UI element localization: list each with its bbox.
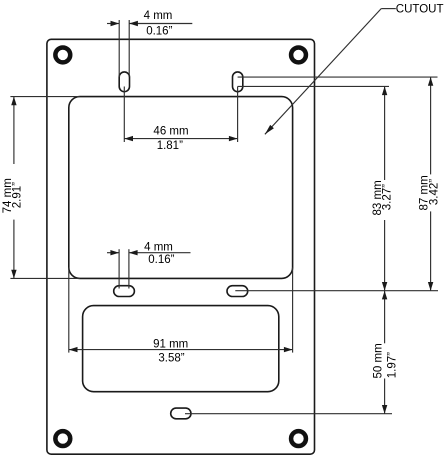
svg-text:91 mm: 91 mm — [153, 339, 188, 351]
svg-text:1.81”: 1.81” — [157, 140, 183, 152]
mounting hole top-left — [55, 47, 70, 62]
slot top-left (vertical) — [119, 72, 129, 92]
bottom slot reference line (to 50mm dimension) — [185, 413, 392, 415]
dimension 83mm: value label — [372, 180, 394, 215]
slot reference line upper (to 87mm dimension) — [238, 76, 438, 78]
svg-text:1.97”: 1.97” — [386, 352, 398, 378]
dimension 4mm top: arrowheads — [111, 21, 138, 26]
dimension 74mm: dimension line — [13, 97, 15, 279]
dimension 46mm: extension lines — [124, 87, 237, 143]
dimension 4mm top: value label — [144, 10, 173, 38]
dimension 87mm: arrowheads — [428, 77, 433, 291]
mid slots reference line (common base) — [235, 290, 438, 292]
cutout rectangle (large upper opening) — [69, 97, 293, 279]
slot mid-left (horizontal) — [114, 286, 135, 297]
dimension 50mm: value label — [372, 343, 398, 378]
svg-text:4 mm: 4 mm — [144, 10, 173, 22]
mounting hole bottom-left — [55, 431, 70, 446]
dimension 4mm lower: value label — [144, 242, 175, 266]
dimension 50mm: dimension line — [384, 291, 386, 414]
dimension 4mm lower: extension lines — [119, 249, 129, 288]
CUTOUT label — [396, 4, 444, 16]
svg-text:3.58”: 3.58” — [158, 353, 184, 365]
mounting hole bottom-right — [291, 431, 306, 446]
dimension 91mm: dimension line — [69, 349, 293, 351]
dimension 50mm: arrowheads — [382, 291, 387, 414]
dimension 4mm lower: dimension line — [107, 252, 191, 254]
svg-text:4 mm: 4 mm — [144, 242, 173, 254]
mounting hole top-right — [291, 47, 306, 62]
dimension 74mm: extension lines — [10, 97, 79, 279]
dimension 87mm: dimension line — [430, 77, 432, 291]
dimension 83mm: dimension line — [384, 86, 386, 290]
slot top-right (vertical) — [233, 72, 243, 92]
dimension 74mm: value label — [2, 178, 23, 213]
svg-text:46 mm: 46 mm — [153, 126, 188, 138]
dimension 4mm top: dimension line — [107, 23, 192, 25]
dimension 46mm: value label — [153, 126, 188, 152]
slot reference line lower (to 83mm dimension) — [238, 85, 389, 87]
svg-text:0.16”: 0.16” — [146, 26, 172, 38]
svg-text:0.16”: 0.16” — [148, 254, 174, 266]
svg-text:50 mm: 50 mm — [372, 343, 384, 378]
dimension 4mm lower: arrowheads — [110, 250, 137, 255]
slot mid-right (horizontal) — [227, 286, 248, 297]
dimension 4mm top: extension lines — [119, 20, 129, 77]
plate outline — [47, 39, 315, 454]
dimension 83mm: arrowheads — [382, 86, 387, 290]
lower opening rectangle — [83, 306, 279, 392]
dimension 46mm: dimension line — [124, 138, 237, 140]
dimension 74mm: arrowheads — [11, 97, 16, 279]
svg-text:2.91”: 2.91” — [11, 182, 23, 208]
dimension 91mm: value label — [153, 339, 188, 365]
dimension 91mm: extension lines — [69, 267, 293, 352]
CUTOUT leader arrowhead — [265, 125, 274, 134]
dimension 46mm: arrowheads — [124, 136, 237, 141]
svg-text:3.42”: 3.42” — [429, 179, 441, 205]
dimension 87mm: value label — [418, 175, 440, 210]
CUTOUT leader line — [265, 9, 396, 135]
svg-text:CUTOUT: CUTOUT — [396, 4, 444, 16]
svg-text:3.27”: 3.27” — [382, 184, 394, 210]
dimension 91mm: arrowheads — [69, 347, 293, 352]
slot bottom-center (horizontal) — [171, 408, 191, 419]
